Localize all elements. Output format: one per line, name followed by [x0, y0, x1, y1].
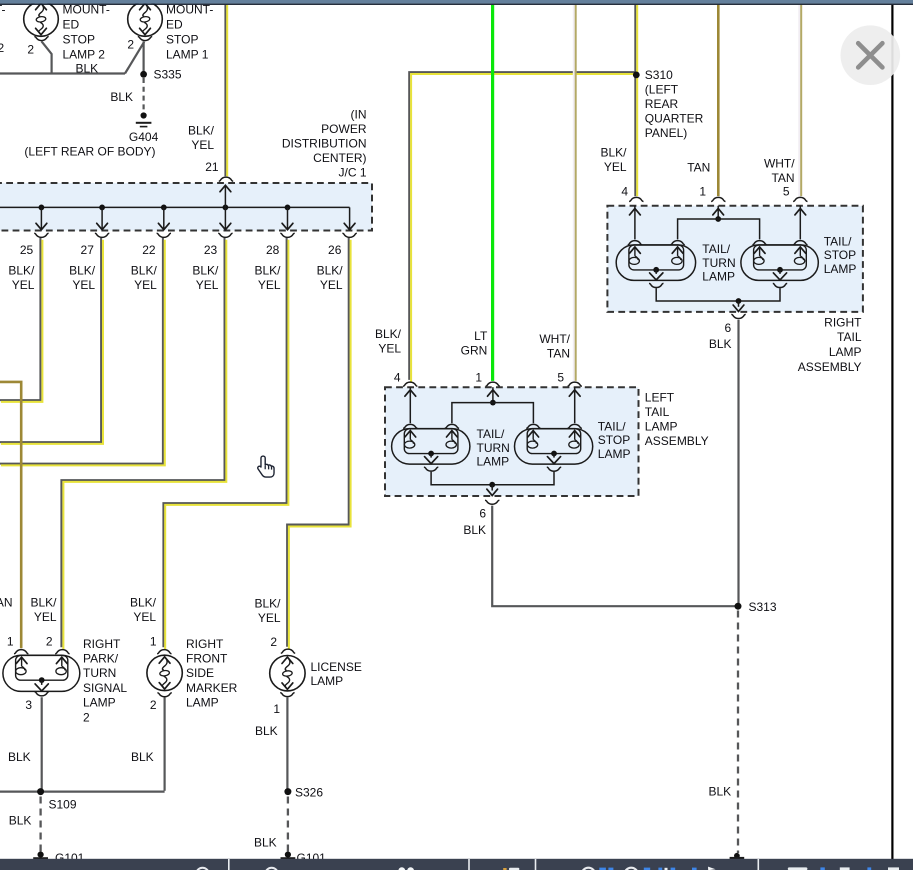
left assy pin1 entry	[492, 387, 494, 402]
wire dashed S326 to G101	[287, 797, 289, 852]
svg-text:28: 28	[266, 243, 280, 257]
park/turn pin1 cup	[14, 650, 28, 654]
svg-text:ASSEMBLY: ASSEMBLY	[798, 360, 862, 374]
svg-text:TAIL/: TAIL/	[477, 427, 505, 441]
J/C1 pin 28 cup	[280, 233, 294, 237]
svg-text:RIGHT: RIGHT	[824, 315, 862, 329]
lamp license	[270, 656, 305, 691]
svg-text:LAMP: LAMP	[645, 420, 678, 434]
svg-text:YEL: YEL	[378, 342, 401, 356]
svg-text:23: 23	[204, 243, 218, 257]
svg-text:TURN: TURN	[702, 256, 735, 270]
svg-text:QUARTER: QUARTER	[645, 112, 704, 126]
wire BLK/YEL pin 22 route	[0, 238, 163, 464]
bottom toolbar	[0, 859, 913, 870]
J/C1 pin 23 cup	[218, 233, 232, 237]
svg-text:1: 1	[7, 635, 14, 649]
J/C1 pin 22 cup	[157, 233, 171, 237]
svg-text:1: 1	[273, 702, 280, 716]
svg-text:BLK: BLK	[463, 523, 486, 537]
splice S313	[735, 603, 742, 610]
left assy ground combine	[431, 472, 554, 485]
close button	[841, 25, 901, 85]
splice S109	[37, 788, 44, 795]
svg-text:YEL: YEL	[133, 610, 156, 624]
svg-text:RIGHT: RIGHT	[83, 637, 121, 651]
wire BLK/YEL pin 28 route	[163, 238, 286, 647]
park/turn pin3 cup	[35, 692, 49, 696]
wire right assy pin6 to S313	[737, 320, 739, 606]
svg-text:TAN: TAN	[547, 347, 570, 361]
right assy pin6 cup	[731, 314, 745, 318]
svg-text:FRONT: FRONT	[186, 652, 228, 666]
left tail lamp assembly box	[385, 387, 639, 496]
svg-text:TAIL: TAIL	[837, 330, 862, 344]
cup above r-oval1 right filament	[670, 241, 684, 245]
J/C1 pin 21 cup	[219, 177, 233, 181]
svg-text:TAN: TAN	[687, 160, 710, 174]
svg-text:BLK/: BLK/	[131, 263, 158, 277]
svg-text:CENTER): CENTER)	[313, 151, 366, 165]
svg-text:YEL: YEL	[72, 278, 95, 292]
svg-text:TURN: TURN	[83, 666, 116, 680]
cup below r-oval2	[773, 283, 787, 287]
svg-text:3: 3	[25, 698, 32, 712]
svg-text:LAMP 1: LAMP 1	[166, 48, 209, 62]
svg-text:WHT/: WHT/	[764, 156, 795, 170]
svg-text:YEL: YEL	[12, 278, 35, 292]
left assy pin6 node	[489, 482, 495, 488]
svg-text:YEL: YEL	[258, 278, 281, 292]
svg-text:2: 2	[127, 38, 134, 52]
wire BLK horizontal to S109	[0, 790, 165, 792]
svg-text:STOP: STOP	[598, 433, 630, 447]
svg-text:25: 25	[20, 243, 34, 257]
wire left assy pin6 to S313	[492, 506, 736, 607]
J/C1 pin 27 drop wire	[101, 207, 103, 228]
svg-text:LAMP: LAMP	[83, 696, 116, 710]
svg-text:MARKER: MARKER	[186, 681, 238, 695]
wire TAN to park/turn pin 1	[0, 382, 21, 648]
wire BLK/YEL pin 27 route	[0, 238, 101, 442]
cup above oval1 left filament	[403, 424, 417, 428]
diagram right border line	[891, 5, 893, 860]
right assy inner feed split	[678, 219, 760, 239]
top bar	[0, 0, 913, 4]
svg-text:5: 5	[557, 371, 564, 385]
svg-text:BLK/: BLK/	[317, 263, 344, 277]
svg-text:27: 27	[81, 243, 95, 257]
svg-text:BLK: BLK	[254, 836, 277, 850]
right assy pin6 drop	[738, 301, 740, 307]
right assy tail/stop lamp	[741, 245, 818, 281]
svg-text:RIGHT: RIGHT	[186, 637, 224, 651]
svg-text:ED: ED	[166, 18, 183, 32]
svg-text:TAIL/: TAIL/	[824, 235, 852, 249]
svg-text:SIGNAL: SIGNAL	[83, 681, 127, 695]
cup below oval1	[424, 467, 438, 471]
wire lamp2 to bus	[42, 41, 52, 72]
wire marker pin2 BLK	[164, 698, 166, 791]
node junction dot 2 on bus	[99, 205, 105, 211]
svg-text:2: 2	[270, 635, 277, 649]
svg-text:GRN: GRN	[461, 344, 488, 358]
splice S326	[284, 788, 291, 795]
svg-text:SIDE: SIDE	[186, 666, 214, 680]
svg-text:REAR: REAR	[645, 97, 679, 111]
left assy pin6 drop	[491, 485, 493, 491]
left assy tail/turn lamp	[392, 429, 470, 465]
svg-text:TAN: TAN	[771, 171, 794, 185]
svg-text:LAMP: LAMP	[824, 262, 857, 276]
J/C1 pin 26 cup	[342, 233, 356, 237]
J/C1 pin 28 arrow	[282, 223, 293, 229]
node junction dot 5 on bus	[285, 205, 291, 211]
svg-text:LAMP: LAMP	[477, 455, 510, 469]
svg-text:ED: ED	[63, 18, 80, 32]
right tail lamp assembly box	[607, 206, 863, 312]
J/C1 pin 27 cup	[95, 233, 109, 237]
side marker pin2 cup	[157, 693, 171, 697]
wire LT GRN to left assembly pin 1	[491, 5, 494, 381]
right assy pin4 entry	[634, 206, 636, 240]
wire dashed S313 to ground	[737, 611, 739, 854]
svg-text:YEL: YEL	[258, 611, 281, 625]
svg-text:BLK: BLK	[8, 750, 31, 764]
svg-text:ASSEMBLY: ASSEMBLY	[645, 434, 709, 448]
wire BLK/YEL pin 23 route	[61, 238, 224, 647]
svg-text:J/C 1: J/C 1	[338, 165, 366, 179]
J/C1 pin 25 drop wire	[40, 207, 42, 228]
right assy pin 1 cup	[711, 197, 725, 201]
svg-text:G404: G404	[129, 130, 159, 144]
right assy pin 5 cup	[793, 197, 807, 201]
left assy pin6 cup	[485, 500, 499, 504]
svg-text:BLK/: BLK/	[254, 597, 281, 611]
svg-text:S335: S335	[154, 68, 182, 82]
svg-text:BLK: BLK	[709, 785, 732, 799]
left assy pin 1 cup	[486, 382, 500, 386]
svg-text:BLK/: BLK/	[192, 263, 219, 277]
cup above oval2 left filament	[526, 424, 540, 428]
J/C1 pin 27 arrow	[97, 223, 108, 229]
svg-text:LAMP: LAMP	[598, 447, 631, 461]
license pin1 cup	[280, 693, 294, 697]
svg-text:BLK/: BLK/	[30, 596, 57, 610]
svg-text:LEFT: LEFT	[645, 391, 675, 405]
svg-text:PANEL): PANEL)	[645, 126, 687, 140]
svg-text:4: 4	[394, 371, 401, 385]
lamp 1 connector cup	[138, 37, 152, 41]
ground G101 left	[38, 852, 44, 858]
ground node bottom right	[734, 853, 740, 859]
wire BLK/YEL pin 21 to top	[224, 5, 226, 176]
svg-text:(LEFT: (LEFT	[645, 83, 679, 97]
wire diagonal to lamp1	[125, 42, 144, 74]
junction block J/C 1 box	[0, 183, 372, 231]
svg-text:BLK/: BLK/	[600, 145, 627, 159]
svg-text:PARK/: PARK/	[83, 652, 119, 666]
park/turn pin2 cup	[55, 650, 69, 654]
left assy inner feed split	[452, 403, 534, 424]
svg-text:2: 2	[83, 710, 90, 724]
svg-text:2: 2	[150, 698, 157, 712]
svg-text:2: 2	[46, 635, 53, 649]
ground G101 right	[285, 852, 291, 858]
right assy pin6 node	[736, 298, 742, 304]
J/C1 pin 28 drop wire	[287, 207, 289, 228]
wire horizontal BLK bus y73.5	[0, 72, 125, 74]
svg-text:BLK: BLK	[709, 337, 732, 351]
svg-text:TURN: TURN	[477, 441, 510, 455]
wire dashed BLK to ground	[143, 78, 145, 112]
svg-text:BLK: BLK	[255, 724, 278, 738]
J/C1 pin 21 arrow	[220, 185, 231, 191]
wire park/turn pin3 BLK	[41, 697, 43, 791]
svg-text:2: 2	[0, 41, 5, 55]
svg-text:(LEFT REAR OF BODY): (LEFT REAR OF BODY)	[24, 145, 155, 159]
svg-text:BLK/: BLK/	[254, 263, 281, 277]
lamp right front side marker	[147, 655, 182, 690]
right assy pin 4 cup	[629, 197, 643, 201]
svg-text:LAMP 2: LAMP 2	[63, 48, 106, 62]
svg-text:2: 2	[27, 43, 34, 57]
svg-text:LAMP: LAMP	[829, 345, 862, 359]
wire BLK/YEL pin 26 route	[287, 238, 349, 647]
right assy pin5 entry	[799, 206, 801, 240]
cup above oval2 right filament	[568, 424, 582, 428]
J/C1 pin 22 drop wire	[163, 207, 165, 228]
svg-text:S326: S326	[295, 786, 323, 800]
svg-text:BLK/: BLK/	[188, 124, 215, 138]
svg-text:1: 1	[699, 185, 706, 199]
svg-text:1: 1	[475, 371, 482, 385]
svg-text:TAN: TAN	[0, 596, 13, 610]
J/C1 pin 21 riser	[224, 186, 226, 207]
svg-text:BLK/: BLK/	[69, 263, 96, 277]
svg-text:POWER: POWER	[321, 122, 367, 136]
svg-text:LAMP: LAMP	[702, 270, 735, 284]
svg-text:BLK/: BLK/	[375, 327, 402, 341]
svg-text:YEL: YEL	[196, 278, 219, 292]
svg-text:BLK: BLK	[110, 90, 133, 104]
lamp right park/turn signal lamp 2	[3, 655, 80, 691]
right assy pin1 node	[715, 216, 721, 222]
cup above oval1 right filament	[445, 424, 459, 428]
svg-text:YEL: YEL	[134, 278, 157, 292]
svg-text:5: 5	[783, 185, 790, 199]
node junction dot 1 on bus	[39, 205, 45, 211]
svg-text:STOP: STOP	[166, 33, 198, 47]
svg-text:YEL: YEL	[320, 278, 343, 292]
wire WHT/TAN to left assembly pin 5	[573, 5, 575, 381]
wire WHT/TAN to right assembly pin 5	[798, 5, 800, 196]
J/C1 pin 22 arrow	[158, 223, 169, 229]
J/C1 pin 25 arrow	[36, 223, 47, 229]
lamp: mounted stop lamp 1 bulb	[128, 2, 163, 37]
svg-text:TAIL: TAIL	[645, 405, 670, 419]
wire dashed S109 to G101	[39, 797, 41, 852]
ground G404 symbol	[141, 112, 147, 118]
svg-text:WHT/: WHT/	[539, 332, 570, 346]
J/C1 pin 23 drop wire	[224, 207, 226, 228]
wire BLK/YEL to right assembly pin 4	[634, 5, 636, 196]
svg-text:LAMP: LAMP	[311, 674, 344, 688]
J/C1 pin 26 drop wire	[349, 207, 351, 228]
svg-text:6: 6	[725, 321, 732, 335]
svg-text:LICENSE: LICENSE	[311, 660, 362, 674]
wire BLK/YEL S310 branch to left assembly pin 4	[409, 72, 635, 380]
svg-text:YEL: YEL	[604, 160, 627, 174]
mouse cursor pointer	[258, 456, 274, 477]
svg-text:YEL: YEL	[191, 138, 214, 152]
cup above r-oval1 left filament	[628, 241, 642, 245]
svg-text:S310: S310	[645, 68, 673, 82]
svg-text:BLK/: BLK/	[130, 596, 157, 610]
left assy pin4 entry	[409, 387, 411, 423]
svg-text:TAIL/: TAIL/	[598, 419, 626, 433]
svg-text:21: 21	[205, 160, 219, 174]
svg-text:6: 6	[479, 507, 486, 521]
left assy pin 5 cup	[568, 382, 582, 386]
svg-text:LT: LT	[474, 329, 488, 343]
cup below r-oval1	[649, 283, 664, 287]
svg-text:LAMP: LAMP	[186, 696, 219, 710]
J/C1 pin 25 cup	[34, 233, 48, 237]
wire BLK/YEL pin 25 route	[0, 238, 40, 400]
splice S335	[140, 71, 147, 78]
license pin2 cup	[281, 649, 295, 653]
svg-text:YEL: YEL	[34, 610, 57, 624]
side marker pin1 cup	[157, 650, 171, 654]
cup above r-oval2 left filament	[752, 241, 766, 245]
svg-text:STOP: STOP	[63, 33, 95, 47]
svg-text:BLK/: BLK/	[8, 263, 35, 277]
left assy tail/stop lamp	[515, 429, 593, 465]
svg-text:22: 22	[142, 243, 156, 257]
svg-text:S313: S313	[749, 600, 777, 614]
svg-text:S109: S109	[49, 798, 77, 812]
left assy pin1 node	[490, 400, 496, 406]
wire license pin1 BLK	[286, 697, 288, 791]
left assy pin 4 cup	[403, 382, 417, 386]
svg-text:TAIL/: TAIL/	[702, 242, 730, 256]
right assy ground combine	[656, 288, 780, 301]
cup above r-oval2 right filament	[793, 241, 807, 245]
right assy pin1 entry	[717, 206, 719, 219]
wire lamp1 to S335	[143, 41, 145, 74]
svg-text:1: 1	[150, 635, 157, 649]
svg-text:26: 26	[328, 243, 342, 257]
wire TAN to right assembly pin 1	[717, 5, 720, 196]
svg-text:4: 4	[621, 185, 628, 199]
lamp 2 connector cup	[34, 37, 48, 41]
svg-text:DISTRIBUTION: DISTRIBUTION	[282, 136, 367, 150]
node junction dot 4 on bus	[223, 205, 229, 211]
J/C1 pin 26 arrow	[344, 223, 355, 229]
svg-text:BLK: BLK	[9, 814, 32, 828]
svg-text:(IN: (IN	[351, 107, 367, 121]
node junction dot 3 on bus	[161, 205, 167, 211]
cup below oval2	[547, 467, 561, 471]
lamp: mounted stop lamp 2 bulb	[24, 2, 59, 37]
right assy tail/turn lamp	[616, 245, 695, 281]
svg-text:BLK: BLK	[131, 750, 154, 764]
J/C1 pin 23 arrow	[220, 223, 231, 229]
left assy pin5 entry	[574, 387, 576, 423]
splice S310	[633, 72, 640, 79]
J/C1 bus wire	[0, 206, 350, 208]
svg-text:STOP: STOP	[824, 248, 856, 262]
